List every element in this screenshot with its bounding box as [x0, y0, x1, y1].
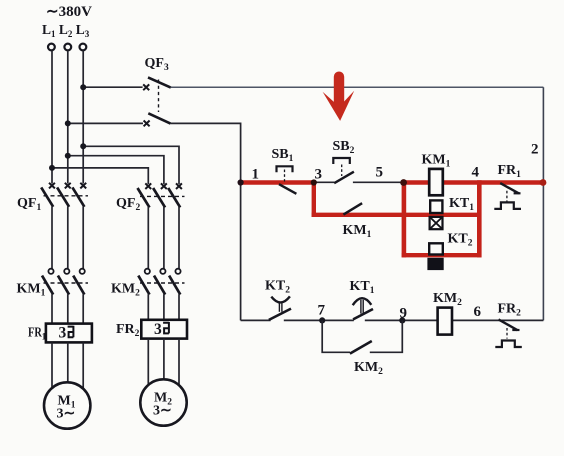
node junction L1/QF2 [49, 165, 55, 171]
node junction at left red vertical [400, 179, 407, 186]
motor M2 [140, 379, 186, 425]
thermal relay FR1 heater box [46, 324, 92, 343]
node 3 [311, 179, 317, 185]
terminal L1 [48, 44, 55, 51]
contactor KM1 link dashed [44, 282, 89, 284]
pushbutton SB1 [272, 147, 297, 194]
wire highlighted red KT2 branch [402, 253, 482, 257]
node 1 [238, 179, 244, 185]
coil KM1 [422, 153, 451, 196]
breaker QF2 pole1 [138, 183, 152, 268]
wire L3 to QF3 pole1 [83, 86, 142, 88]
breaker QF1 pole3 [72, 183, 86, 269]
node 7 [319, 317, 325, 323]
contact FR1 (NC thermal) [494, 163, 521, 209]
wire highlighted red left vertical [402, 180, 407, 257]
wires FR2 to M2 [148, 339, 179, 386]
wire highlighted red main line right (to node2) [402, 180, 544, 184]
svg-text:7: 7 [318, 303, 326, 319]
wire highlighted red KM1-aux / KT1 branch [312, 213, 482, 217]
breaker QF1 pole2 [57, 183, 71, 269]
svg-text:FR: FR [28, 325, 42, 340]
breaker QF3 pole2 blade [148, 113, 170, 123]
wire highlighted red node3 drop [312, 180, 316, 217]
red arrow marker [323, 77, 355, 121]
contactor KM2 pole3 [169, 269, 180, 320]
svg-text:9: 9 [400, 306, 408, 322]
wires FR1 to M1 [52, 343, 83, 389]
svg-text:6: 6 [474, 304, 482, 320]
wire L2 branch to QF2 pole2 [68, 156, 164, 184]
coil KT2 with delay element [428, 232, 473, 270]
contactor KM2 pole2 [154, 269, 165, 320]
pushbutton SB2 [333, 139, 355, 183]
contact KT2 (time-delay NO, bottom row) [265, 279, 291, 320]
wire highlighted red right vertical [477, 180, 482, 257]
wire highlighted red main line left (node1 to node3) [241, 180, 314, 184]
breaker QF1 pole1 [41, 183, 55, 269]
contactor KM2 link dashed [140, 282, 185, 284]
wire QF3 pole1 to top line [171, 86, 544, 88]
breaker QF1 link dashed [44, 195, 89, 197]
contactor KM1 pole1 [42, 269, 54, 323]
wire L2 to QF3 pole2 [68, 122, 143, 124]
svg-text:4: 4 [472, 165, 480, 181]
motor M1 [44, 382, 90, 428]
wire control bottom line [241, 319, 544, 321]
contactor KM1 pole2 [58, 269, 70, 323]
breaker QF2 pole2 [153, 183, 167, 268]
svg-text:L1 L2 L3: L1 L2 L3 [42, 22, 90, 39]
coil KT1 with delay element [430, 196, 475, 229]
wire SB2 to node5 to red block [353, 181, 403, 183]
node 2 [540, 179, 547, 186]
node junction L3/QF2 [80, 143, 86, 149]
svg-text:3: 3 [59, 325, 67, 342]
contactor KM2 pole1 [138, 269, 150, 320]
svg-text:5: 5 [376, 165, 384, 181]
coil KM2 [433, 291, 462, 335]
breaker QF2 link dashed [140, 195, 185, 197]
breaker QF3 pole1 x-mark [143, 84, 149, 90]
terminal L2 [64, 44, 71, 51]
wire QF3 pole2 to control left vertical [170, 123, 240, 320]
wire L3 branch to QF2 pole3 [83, 146, 179, 184]
svg-text:3: 3 [315, 167, 323, 183]
contact KM2 auxiliary branch [322, 320, 402, 377]
contact KM1 auxiliary (self-hold) [343, 203, 372, 240]
svg-text:1: 1 [252, 167, 260, 183]
thermal relay FR2 heater box [141, 320, 187, 339]
wire node3 to SB2 [314, 181, 335, 183]
svg-text:3: 3 [154, 321, 162, 338]
contact FR2 (NC thermal) [495, 302, 522, 348]
node junction L3/QF3 [80, 84, 86, 90]
svg-text:3∼: 3∼ [57, 407, 76, 422]
wire L1 vertical [51, 51, 53, 184]
breaker QF2 pole3 [168, 183, 182, 268]
breaker QF3 pole2 x-mark [144, 121, 150, 127]
svg-text:2: 2 [531, 142, 539, 158]
breaker QF3 link dashed [158, 80, 160, 113]
node 9 [399, 317, 405, 323]
node junction L2/QF3 [65, 120, 71, 126]
svg-text:∼380V: ∼380V [46, 4, 92, 20]
node junction L2/QF2 [65, 153, 71, 159]
contactor KM1 pole3 [73, 269, 85, 323]
svg-text:3∼: 3∼ [153, 404, 172, 419]
contact KT1 (time-delay NO, bottom row) [350, 279, 375, 319]
wire L3 vertical [82, 51, 84, 184]
terminal L3 [80, 44, 87, 51]
wire node2 right vertical [542, 87, 544, 320]
breaker QF3 pole1 blade [148, 77, 171, 87]
wire L2 vertical [67, 51, 69, 184]
wire L1 branch to QF2 pole1 [52, 168, 148, 184]
